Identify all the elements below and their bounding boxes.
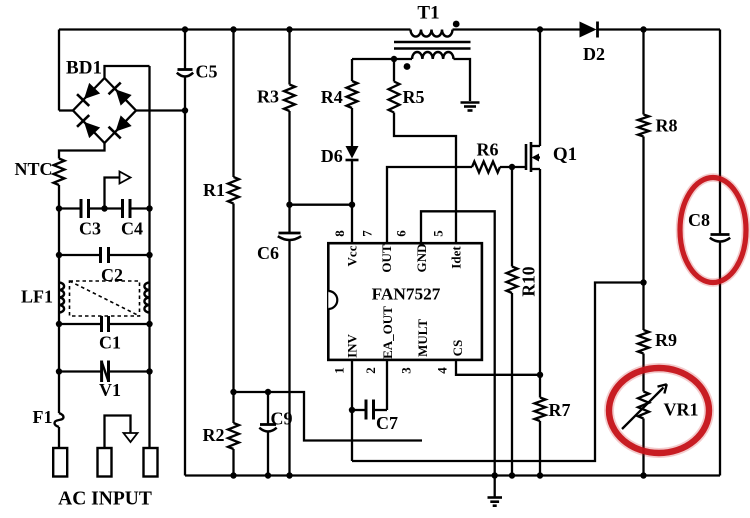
wire D6 to Vcc node [351,160,353,205]
T1 primary phase dot [453,21,460,28]
svg-text:V1: V1 [99,380,121,400]
resistor R7 [535,398,546,422]
capacitor C2 [99,247,102,263]
wire R5 bottom to Idet pin 5 [394,113,456,244]
resistor R8 [638,115,649,137]
wire BD1 minus vertex to bus [136,109,185,111]
earth down-arrow [124,433,138,442]
svg-text:R1: R1 [203,180,225,200]
svg-text:R9: R9 [655,330,677,350]
transformer T1 primary winding [411,30,453,37]
wire F1 to terminal [58,427,60,448]
wire BD1 top vertex to AC right column [105,66,150,78]
node top rail R1 junction [230,26,236,32]
wire T1 secondary left [352,58,412,60]
resistor R9 [638,330,649,354]
svg-text:5: 5 [431,230,446,237]
wire left column NTC to F1 [58,185,60,413]
wire C9 top [267,392,269,425]
capacitor C3 [80,199,83,218]
svg-text:C1: C1 [99,333,121,353]
diode BD1 bottom-right (arrow to bottom vertex) [109,115,133,139]
wire R4 top [351,59,353,81]
wire C3/C4 row left [59,207,81,209]
wire R5 top [393,59,395,82]
node VR1 bottom rail junction [640,472,646,478]
svg-text:Idet: Idet [448,246,463,269]
transistor Q1 [525,144,528,170]
diode D2 [580,22,597,38]
svg-text:R8: R8 [656,116,678,136]
svg-text:R7: R7 [549,400,571,420]
svg-text:1: 1 [332,367,347,374]
wire pin8 stub [351,205,353,244]
capacitor C6 [279,232,301,235]
wire C2 row left [59,254,101,256]
node Vcc pin8 junction [349,202,355,208]
node gate/R10 junction [509,164,515,170]
node C2 right junction [146,252,152,258]
wire Q1 drain [539,30,541,147]
svg-text:D6: D6 [321,146,343,166]
svg-text:EA_OUT: EA_OUT [380,306,395,359]
node C4 row right junction [146,205,152,211]
wire Vcc node to pin 8 [290,204,353,206]
resistor R10 [507,267,518,294]
wire C3 to center node [89,207,105,209]
op-amp/IC U1 FAN7527 body [328,243,482,360]
node top rail R8 junction [640,26,646,32]
wire T1 secondary right to ground [454,59,471,101]
wire C1 row left [59,323,102,325]
node C9 top junction [265,389,271,395]
svg-text:C4: C4 [121,219,143,239]
svg-text:R3: R3 [257,87,279,107]
node R3/C6/Vcc junction [286,202,292,208]
wire C9 bottom [267,432,269,476]
wire R10 bottom [511,293,513,476]
svg-text:AC INPUT: AC INPUT [58,489,152,510]
svg-text:BD1: BD1 [66,58,102,79]
AC input terminal 2 (earth) [98,448,112,477]
wire R2 bottom [232,449,234,476]
bridge rectifier BD1 diamond outline [73,78,136,143]
svg-text:8: 8 [332,230,347,237]
svg-text:C3: C3 [79,219,101,239]
node R1/R2 junction [230,389,236,395]
wire R3 bottom to Vcc node [288,111,290,205]
svg-text:7: 7 [360,230,375,237]
svg-text:F1: F1 [33,407,53,427]
wire V1 row left [59,370,102,372]
ground symbol at T1 secondary [461,101,480,104]
svg-text:OUT: OUT [379,244,394,273]
node V1 right junction [146,368,152,374]
capacitor C9 [260,423,276,426]
svg-text:INV: INV [345,333,360,357]
wire C1 row right [109,323,150,325]
svg-text:6: 6 [394,230,409,237]
resistor R2 [228,423,239,449]
diode BD1 bottom-left (arrow to + vertex) [77,115,101,139]
wire negative bus down [184,78,186,476]
node C3/C4 center junction [101,205,107,211]
wire top rail T1-to-D2 segment [453,28,580,30]
diode BD1 top-right (arrow to top vertex) [109,83,133,107]
wire R4 to D6 [351,108,353,146]
svg-text:MULT: MULT [415,319,430,357]
wire MULT node row [234,392,423,441]
node R2 bottom rail junction [230,472,236,478]
wire R10 top [511,167,513,267]
node R7 bottom rail junction [537,472,543,478]
wire CS pin4 to source node [456,360,540,375]
wire AC right column vertical [148,66,150,448]
svg-text:C6: C6 [257,243,279,263]
svg-text:2: 2 [363,367,378,374]
node top rail R3 junction [286,26,292,32]
wire earth terminal to arrow [105,416,131,449]
node BD1 minus junction on bus [182,107,188,113]
fuse F1 [55,413,64,427]
svg-text:R2: R2 [203,425,225,445]
svg-text:3: 3 [399,367,414,374]
wire R6 to gate [500,166,526,168]
T1 secondary phase dot [404,63,411,70]
wire center node to C4 [105,207,123,209]
svg-text:Vcc: Vcc [345,245,360,266]
wire GND pin6 to rail [421,211,495,475]
wire R8 bottom to feedback node [642,137,644,283]
svg-text:R4: R4 [321,87,343,107]
wire C4 row right [130,207,150,209]
wire right edge lower (output-) [719,242,721,476]
wire R2 top [232,392,234,423]
svg-text:FAN7527: FAN7527 [372,285,441,304]
node C9 bottom rail junction [265,472,271,478]
diode D6 [346,146,359,159]
transformer T1 core bars [394,41,471,44]
svg-text:C5: C5 [196,62,218,82]
capacitor C8 [711,233,730,236]
wire R7 bottom [539,421,541,476]
wire R8 top [642,30,644,115]
wire BD1 bottom vertex to NTC [59,143,105,159]
node C3 row left junction [56,205,62,211]
chassis arrow at C3/C4 node [105,178,120,209]
svg-text:C2: C2 [101,265,123,285]
capacitor C1 [100,316,103,332]
wire BD1 left vertex to left column [58,30,60,111]
node Q1 source / R7 / CS junction [537,372,543,378]
ground symbol below rail [494,476,496,498]
thermistor NTC [54,159,65,186]
diode BD1 top-left (arrow to + vertex) [77,82,101,106]
node V1 left junction [56,368,62,374]
resistor R3 [284,85,295,112]
wire R1 top [232,30,234,178]
wire top rail D2-to-right-edge segment [599,28,721,30]
svg-text:R10: R10 [519,266,539,296]
resistor R6 [472,162,500,173]
varistor V1 [100,361,103,383]
variable resistor VR1 [638,392,649,419]
inductor LF1 right winding [144,283,149,313]
node R10 bottom rail junction [509,472,515,478]
wire R9 top [642,283,644,331]
svg-text:VR1: VR1 [664,400,699,420]
wire INV pin1 down [351,360,353,461]
wire top rail left segment (BD1+ to T1) [59,28,411,30]
node GND branch rail junction [492,472,498,478]
wire R1 bottom to node [232,204,234,393]
wire C5 top [184,30,186,70]
wire R3 top [288,30,290,85]
svg-text:D2: D2 [583,44,605,64]
wire R7 top [539,375,541,398]
wire bottom ground rail [185,474,720,476]
wire right edge down (output+) [719,30,721,235]
node C2 left junction [56,252,62,258]
svg-text:R5: R5 [403,87,425,107]
svg-text:4: 4 [435,367,450,374]
capacitor C7 [352,409,366,411]
wire C6 bottom [288,241,290,476]
wire V1 row right [109,370,150,372]
node INV / C7 junction [349,407,355,413]
node C1 left junction [56,321,62,327]
svg-text:GND: GND [414,244,429,273]
node R8/R9 feedback junction [640,279,646,285]
svg-text:C8: C8 [688,210,710,230]
node C1 right junction [146,321,152,327]
svg-text:R6: R6 [477,140,499,160]
wire C7 to EA_OUT pin2 [386,360,388,410]
svg-text:LF1: LF1 [21,287,53,307]
capacitor C5 [178,68,193,71]
wire R9 to VR1 [642,354,644,392]
wire VR1 bottom [642,419,644,476]
node T1 secondary / R5 junction [391,56,397,62]
node Q1 drain top rail junction [537,26,543,32]
svg-text:C7: C7 [376,413,398,433]
capacitor C4 [121,199,124,218]
resistor R4 [347,81,358,108]
wire C2 row right [109,254,150,256]
svg-text:CS: CS [450,340,465,357]
AC input terminal 1 [53,448,67,477]
LF1 core dashed box [70,281,140,316]
wire OUT pin7 up and right [387,167,472,243]
inductor LF1 left winding [59,283,64,313]
red highlight ring around C8 [680,178,746,283]
wire Q1 source down [539,169,541,375]
node C6 bottom rail junction [286,472,292,478]
svg-text:T1: T1 [417,3,439,24]
resistor R1 [228,177,239,204]
transformer T1 secondary winding [412,52,454,59]
resistor R5 [389,82,400,113]
wire INV feedback run [352,283,644,462]
wire C6 top [288,205,290,233]
svg-text:NTC: NTC [14,159,52,179]
node top rail C5 junction [182,26,188,32]
svg-text:Q1: Q1 [553,144,577,165]
red highlight ring around VR1 [609,368,709,453]
AC input terminal 3 [144,448,158,477]
